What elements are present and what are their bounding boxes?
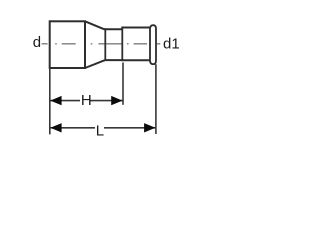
extension line right — [155, 64, 157, 134]
taper cone top edge — [85, 21, 104, 29]
middle pipe section bottom edge — [105, 59, 123, 61]
middle pipe section top edge — [104, 28, 123, 30]
taper end line — [104, 28, 106, 61]
socket depth line — [121, 28, 123, 61]
L arrow right — [144, 123, 155, 132]
H arrow left — [50, 96, 61, 105]
press bead outline — [150, 25, 156, 64]
socket section top edge — [121, 27, 150, 29]
extension line left — [49, 68, 51, 134]
taper cone bottom edge — [85, 60, 105, 68]
dimension line H — [50, 100, 123, 102]
extension line socket depth — [122, 63, 124, 105]
svg-text:d: d — [33, 34, 41, 51]
socket section bottom edge — [121, 59, 150, 61]
fitting body: large cylinder — [50, 21, 85, 68]
svg-text:L: L — [96, 123, 104, 140]
svg-text:d1: d1 — [163, 35, 180, 52]
svg-text:H: H — [81, 92, 92, 109]
H arrow right — [111, 96, 122, 105]
dimension line L — [50, 127, 156, 129]
centerline (dash-dot axis) — [42, 43, 161, 45]
L arrow left — [50, 123, 61, 132]
